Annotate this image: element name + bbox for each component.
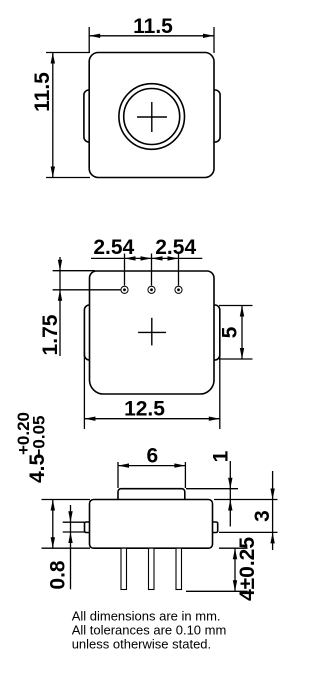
outer circle fig1	[119, 84, 185, 150]
svg-text:1.75: 1.75	[39, 314, 62, 355]
svg-text:2.54: 2.54	[93, 236, 134, 259]
svg-text:0.8: 0.8	[47, 560, 70, 590]
dimension 12.5 fig2	[84, 352, 219, 429]
pins fig3	[121, 548, 182, 589]
inner circle fig1	[124, 89, 180, 145]
svg-text:1: 1	[210, 450, 233, 462]
svg-text:4±0.25: 4±0.25	[236, 537, 259, 601]
svg-text:11.5: 11.5	[133, 15, 173, 38]
svg-text:All dimensions are in mm.: All dimensions are in mm.	[72, 609, 221, 624]
svg-text:3: 3	[251, 510, 274, 522]
right tab fig3	[210, 522, 218, 533]
dimension 0.8 fig3	[63, 505, 85, 589]
dimension 4.5 +0.20 -0.05 fig3	[42, 500, 91, 549]
pin 1 fig3	[121, 548, 127, 589]
svg-text:12.5: 12.5	[124, 398, 165, 421]
dimension 6 fig3	[118, 462, 185, 488]
svg-text:6: 6	[146, 445, 158, 468]
pin 2 fig3	[149, 548, 155, 589]
pin hole 3 fig2	[175, 286, 182, 293]
center cross fig1	[137, 102, 167, 132]
dimension 1.75 fig2	[53, 257, 121, 356]
dimension 1 fig3	[186, 461, 278, 527]
svg-text:−0.05: −0.05	[30, 415, 49, 458]
svg-text:2.54: 2.54	[155, 236, 196, 259]
pin hole 1 fig2	[121, 286, 182, 293]
left side bump fig1	[84, 90, 96, 142]
left tab fig3	[85, 522, 93, 533]
center cross fig2	[138, 318, 166, 346]
lid fig3	[118, 489, 185, 503]
package body outline fig2	[90, 271, 215, 394]
pin 3 fig3	[176, 548, 182, 589]
dimension 2.54 / 2.54 fig2	[91, 254, 202, 286]
dimension 11.5 vertical fig1	[46, 53, 90, 178]
dimension 3 fig3	[219, 471, 278, 550]
dimension 4±0.25 fig3	[186, 548, 248, 591]
dimension 5 fig2	[219, 306, 253, 360]
svg-text:All tolerances are 0.10 mm: All tolerances are 0.10 mm	[72, 623, 227, 638]
pin hole 2 fig2	[148, 286, 155, 293]
right side bump fig1	[208, 90, 220, 142]
svg-text:5: 5	[219, 326, 242, 338]
svg-text:11.5: 11.5	[31, 72, 54, 112]
package body outline fig1	[89, 53, 214, 178]
right side bump fig2	[208, 305, 220, 360]
dimension 11.5 horizontal fig1	[89, 27, 214, 53]
body fig3	[90, 500, 213, 549]
svg-text:unless otherwise stated.: unless otherwise stated.	[72, 637, 211, 652]
left side bump fig2	[84, 305, 96, 360]
